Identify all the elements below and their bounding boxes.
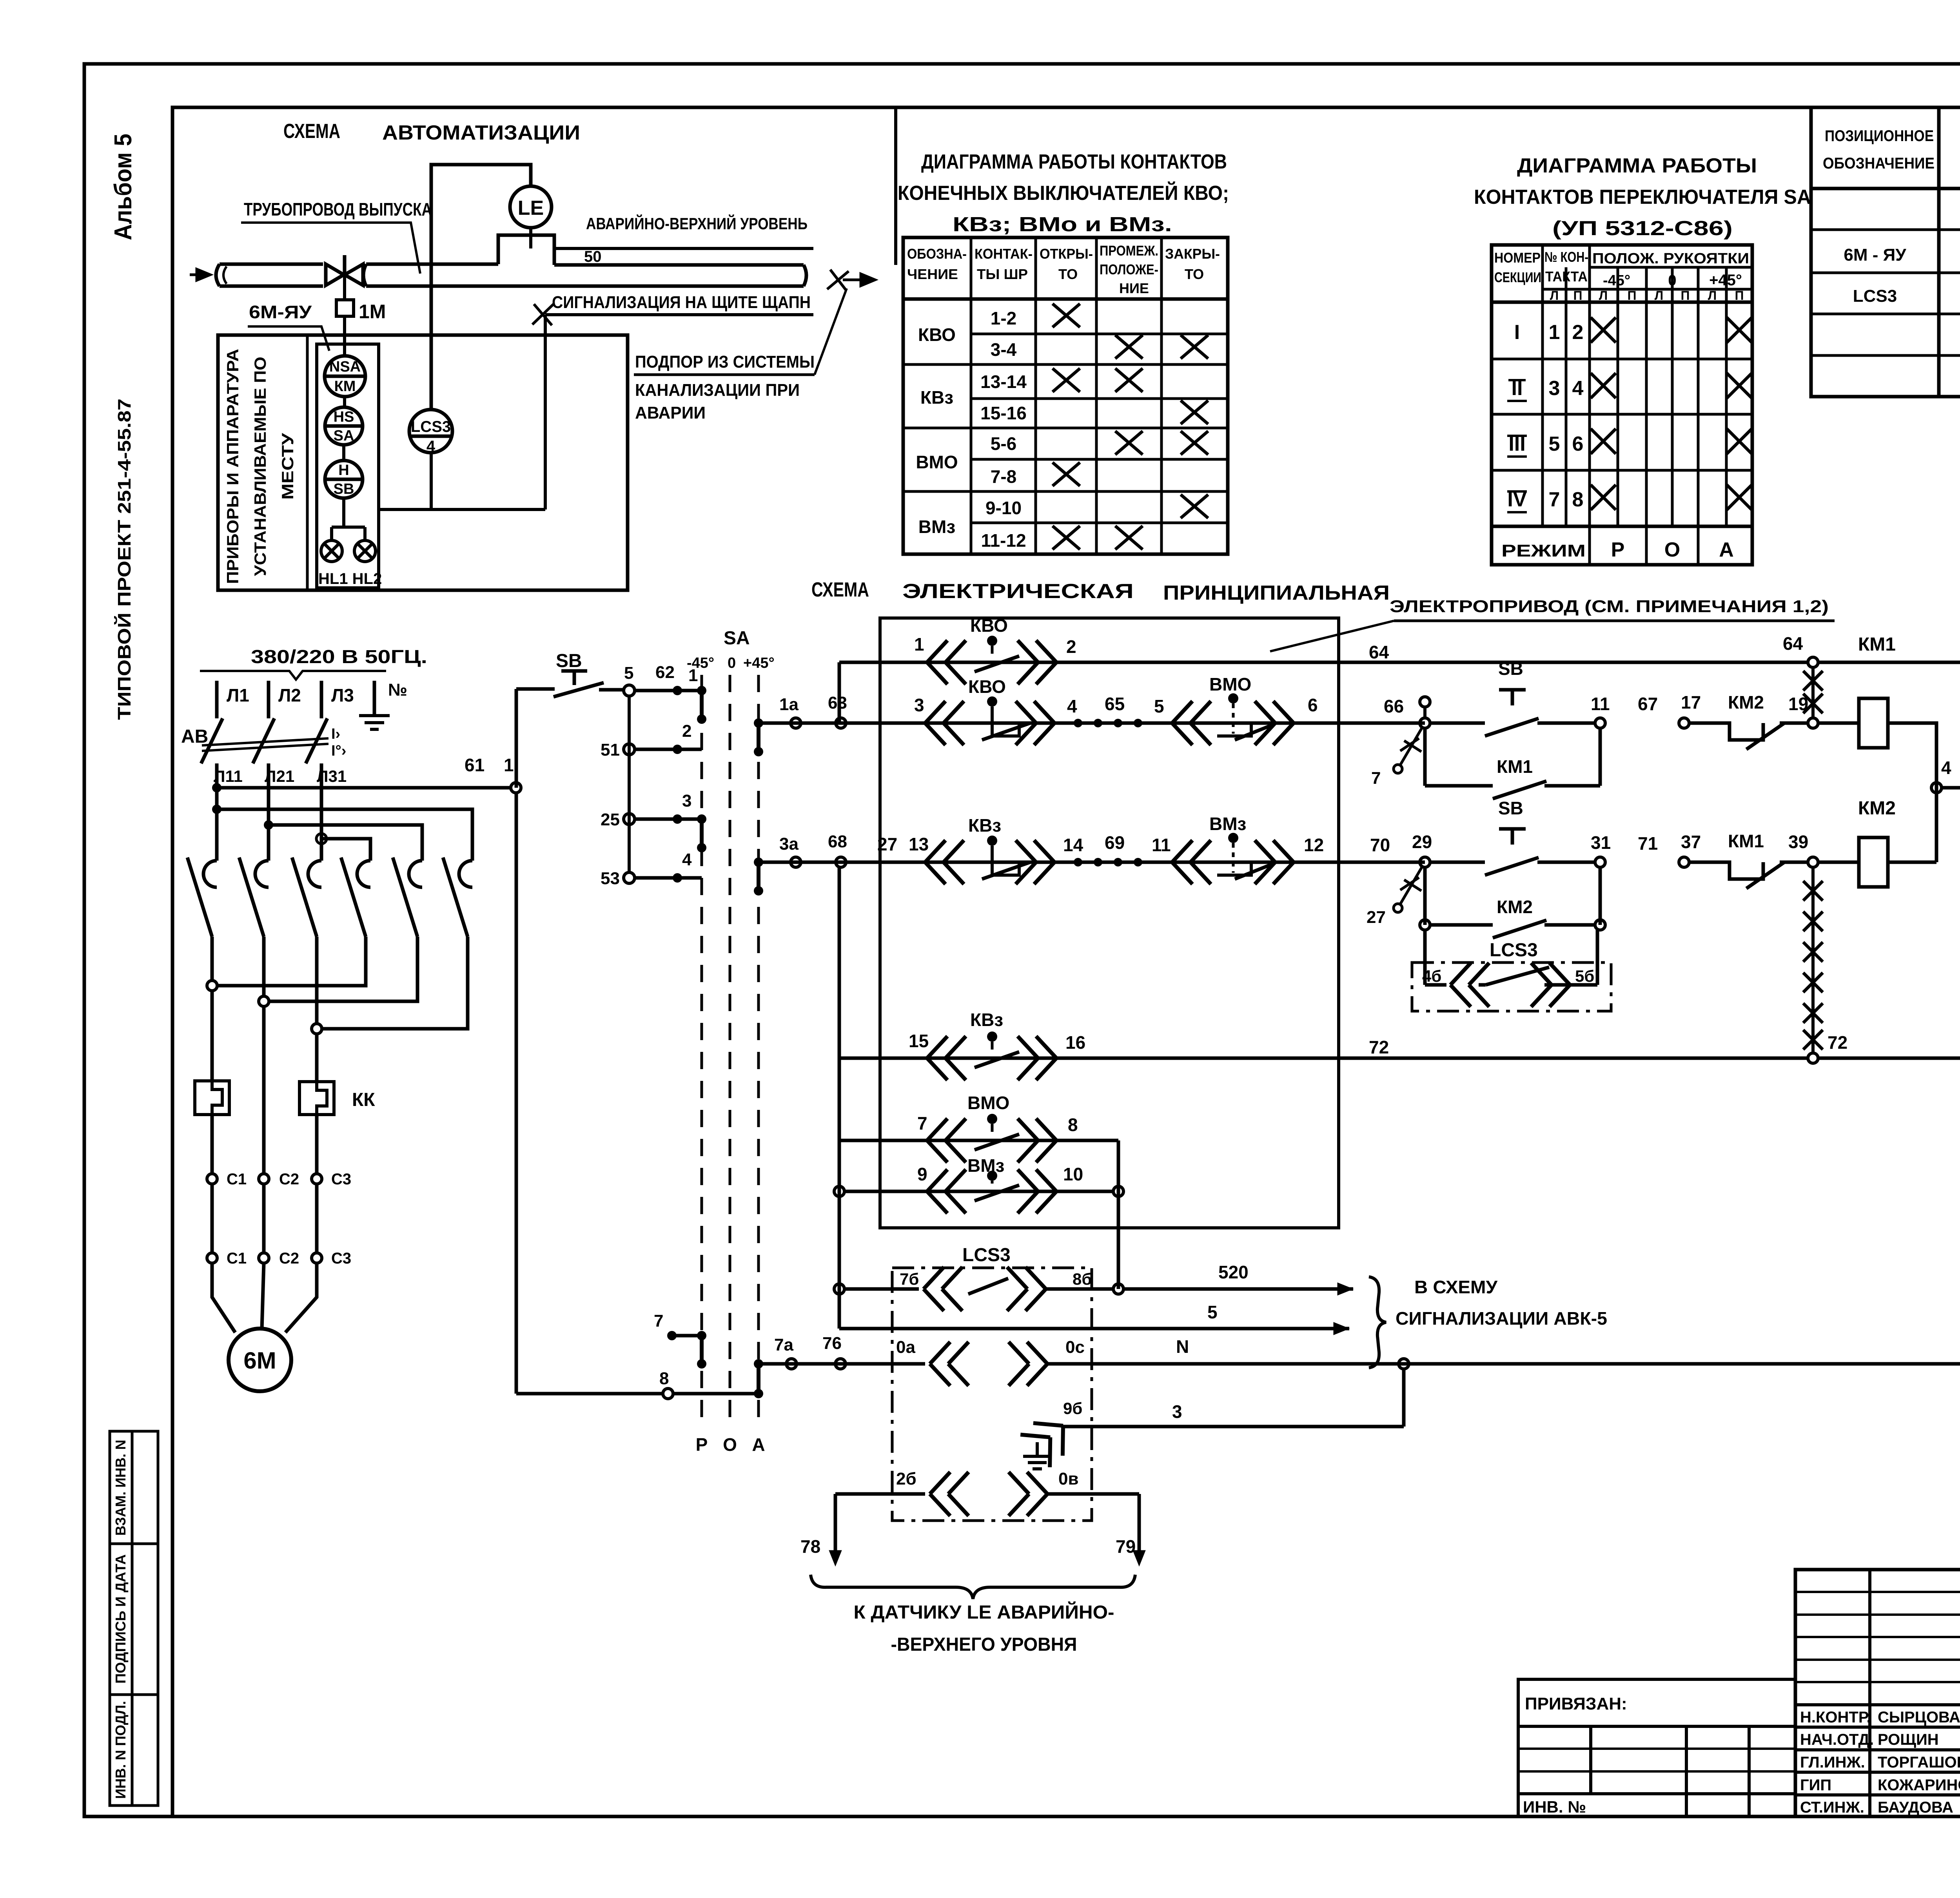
terminals C1 C2 C3 row 2 [207, 1253, 217, 1263]
wire terminal 8 to SA A [673, 1392, 759, 1396]
svg-text:СХЕМА: СХЕМА [811, 578, 869, 601]
wire 1M box to NSA [343, 316, 346, 356]
junction dots on phases [212, 783, 221, 792]
wire 3 [1063, 1425, 1404, 1428]
svg-text:70: 70 [1370, 835, 1390, 855]
svg-text:37: 37 [1681, 832, 1701, 852]
inner frame top line [172, 106, 1960, 109]
node 7a [786, 1359, 797, 1369]
connector pins 4b-5b [1450, 963, 1489, 1007]
cross link 2 [269, 937, 417, 1001]
svg-text:ПРИНЦИПИАЛЬНАЯ: ПРИНЦИПИАЛЬНАЯ [1163, 582, 1390, 604]
SA contact bar P rows1-2 [702, 691, 759, 891]
wire 2b-0v row [835, 1492, 925, 1496]
wire 64 to HL1 [1818, 661, 1960, 664]
wire N to right bus [1047, 1362, 1960, 1366]
svg-text:-ВЕРХНЕГО УРОВНЯ: -ВЕРХНЕГО УРОВНЯ [891, 1634, 1077, 1655]
node 4 [1931, 783, 1942, 793]
svg-text:П: П [1735, 288, 1744, 303]
svg-text:64: 64 [1783, 633, 1803, 654]
svg-text:62: 62 [655, 663, 675, 682]
svg-text:ВМО: ВМО [1209, 674, 1251, 694]
node 17 [1679, 718, 1689, 728]
svg-text:5: 5 [1207, 1302, 1218, 1322]
svg-text:БАУДОВА: БАУДОВА [1878, 1799, 1953, 1816]
wire 5 [839, 1327, 1349, 1331]
svg-text:-45°: -45° [1603, 272, 1630, 289]
node 66 with stub [1420, 718, 1430, 728]
SA dashed column P [701, 675, 703, 1427]
svg-text:1а: 1а [779, 695, 799, 714]
svg-text:КМ2: КМ2 [1858, 798, 1896, 819]
X marks table2 [1591, 317, 1752, 510]
LCS3 contact blade [968, 1278, 1008, 1294]
leader podpor to pipe [815, 288, 847, 375]
svg-text:КВО: КВО [968, 676, 1006, 697]
pipe section 1 [216, 264, 323, 286]
svg-text:С3: С3 [331, 1250, 351, 1267]
connector pins row2b right [1255, 701, 1294, 745]
svg-text:КМ: КМ [334, 378, 356, 395]
svg-text:ВМО: ВМО [916, 452, 958, 472]
svg-text:HL1 HL2: HL1 HL2 [318, 570, 382, 587]
phase wires down [217, 763, 321, 861]
wire row3 from SA [759, 861, 1425, 864]
connector pins row1 left [927, 640, 966, 684]
svg-text:А: А [752, 1434, 765, 1455]
reversing jumper 1 [217, 809, 472, 861]
svg-text:№ КОН-: № КОН- [1544, 249, 1588, 265]
wire 7 to SA [672, 1334, 702, 1338]
SA dashed column O [729, 675, 731, 1427]
connector pins row2 right [1016, 701, 1054, 745]
svg-text:2: 2 [1066, 636, 1076, 657]
terminal 8 [663, 1389, 673, 1399]
svg-text:ГИП: ГИП [1800, 1777, 1831, 1794]
svg-text:19: 19 [1788, 694, 1808, 714]
valve stem to drive box [343, 276, 346, 300]
svg-text:СЫРЦОВА: СЫРЦОВА [1878, 1709, 1960, 1726]
svg-text:I°›: I°› [331, 743, 346, 759]
svg-text:КОНТАК-: КОНТАК- [975, 246, 1033, 262]
wires to thermal elements [212, 991, 317, 1174]
SA bottom terminal 7 [667, 1331, 677, 1340]
svg-text:АВАРИИ: АВАРИИ [635, 403, 706, 422]
node C-link 2 [259, 996, 269, 1006]
svg-text:72: 72 [1828, 1032, 1847, 1053]
svg-text:О: О [723, 1434, 737, 1455]
phase stub L3 [320, 681, 323, 718]
cable wires [212, 1184, 317, 1253]
svg-text:КВз; ВМо и ВМз.: КВз; ВМо и ВМз. [953, 213, 1172, 236]
svg-text:68: 68 [828, 832, 847, 851]
neutral stub [373, 681, 376, 715]
svg-text:П: П [1681, 288, 1690, 303]
node 3a [791, 857, 801, 867]
svg-text:3-4: 3-4 [991, 339, 1017, 360]
crossed jumper 64-19 [1803, 667, 1823, 718]
connector pins row5 left [927, 1118, 966, 1162]
svg-text:КМ2: КМ2 [1497, 897, 1533, 917]
svg-text:31: 31 [1591, 832, 1611, 853]
svg-text:ПОЗИЦИОННОЕ: ПОЗИЦИОННОЕ [1825, 127, 1934, 145]
svg-text:5б: 5б [1575, 967, 1594, 985]
cross link 1 [217, 937, 366, 986]
svg-text:10: 10 [1063, 1164, 1083, 1184]
node 61 [511, 783, 521, 793]
terminal 5 [624, 685, 635, 696]
svg-text:2: 2 [682, 721, 691, 741]
svg-text:11: 11 [1152, 835, 1171, 855]
svg-text:5: 5 [1154, 696, 1164, 716]
svg-text:КК: КК [352, 1089, 375, 1110]
leader truboprovod [241, 223, 420, 274]
svg-text:65: 65 [1105, 694, 1125, 714]
svg-text:КОЖАРИНОВА: КОЖАРИНОВА [1878, 1777, 1960, 1794]
svg-text:Р: Р [696, 1434, 708, 1455]
svg-text:78: 78 [800, 1536, 820, 1557]
svg-text:9б: 9б [1063, 1399, 1082, 1418]
connector pins row3 left [925, 840, 964, 884]
wire LCS3 down [430, 453, 433, 509]
svg-text:1: 1 [1549, 321, 1560, 344]
svg-text:ПОДПИСЬ И ДАТА: ПОДПИСЬ И ДАТА [113, 1554, 129, 1684]
svg-text:3: 3 [682, 791, 691, 810]
wire tap dots [673, 686, 682, 695]
svg-text:ДИАГРАММА РАБОТЫ: ДИАГРАММА РАБОТЫ [1517, 154, 1757, 177]
terminal 53 [624, 872, 635, 883]
svg-text:69: 69 [1105, 832, 1125, 853]
terminal 51 [624, 744, 635, 755]
svg-text:51: 51 [601, 740, 620, 760]
connector pins row2 left [925, 701, 964, 745]
svg-text:16: 16 [1065, 1032, 1085, 1053]
svg-text:5: 5 [624, 663, 633, 683]
svg-text:3: 3 [1549, 377, 1560, 400]
svg-text:6М-ЯУ: 6М-ЯУ [249, 302, 312, 322]
svg-text:ОБОЗНАЧЕНИЕ: ОБОЗНАЧЕНИЕ [1823, 155, 1935, 172]
svg-text:50: 50 [584, 248, 602, 265]
leader 6M-YaU [248, 326, 329, 351]
splice dots row3 [1074, 858, 1082, 867]
svg-text:HS: HS [334, 409, 354, 425]
svg-text:ПОДПОР ИЗ СИСТЕМЫ: ПОДПОР ИЗ СИСТЕМЫ [635, 352, 815, 372]
connector pins 7b [924, 1267, 962, 1311]
svg-text:4: 4 [1572, 377, 1584, 400]
svg-text:N: N [1176, 1336, 1189, 1357]
svg-text:№: № [388, 680, 407, 700]
svg-text:LCS3: LCS3 [411, 418, 451, 435]
drive box 1M [336, 300, 354, 316]
connector pins 0c [1009, 1342, 1047, 1386]
svg-text:8: 8 [1068, 1115, 1078, 1135]
svg-text:61: 61 [465, 755, 485, 775]
svg-text:7: 7 [1549, 488, 1560, 511]
instrument H/SB [325, 460, 363, 498]
thermal element KK phase1 [195, 1081, 229, 1115]
svg-text:4б: 4б [1422, 967, 1441, 985]
svg-text:Альбом 5: Альбом 5 [110, 134, 137, 240]
svg-text:6М - ЯУ: 6М - ЯУ [1844, 245, 1906, 265]
svg-text:0а: 0а [896, 1338, 915, 1357]
svg-text:ИНВ. N ПОДЛ.: ИНВ. N ПОДЛ. [113, 1701, 129, 1799]
svg-text:НИЕ: НИЕ [1119, 280, 1149, 296]
svg-text:39: 39 [1788, 832, 1808, 852]
svg-text:3а: 3а [779, 834, 799, 854]
phase stub L1 [215, 681, 219, 718]
wire row 520 [834, 1284, 844, 1294]
contactor KM1 poles [187, 857, 472, 937]
svg-text:13-14: 13-14 [980, 372, 1027, 392]
electric drive boundary box [880, 618, 1339, 1228]
svg-text:9: 9 [917, 1164, 927, 1184]
svg-text:ТО: ТО [1058, 266, 1078, 282]
svg-text:NSA: NSA [329, 359, 361, 375]
svg-text:ЭЛЕКТРОПРИВОД (СМ. ПРИМЕЧАНИЯ: ЭЛЕКТРОПРИВОД (СМ. ПРИМЕЧАНИЯ 1,2) [1390, 597, 1829, 616]
svg-text:380/220 В 50ГЦ.: 380/220 В 50ГЦ. [251, 647, 427, 667]
svg-text:КМ1: КМ1 [1858, 634, 1896, 655]
LE stem down to pipe pocket [529, 228, 532, 248]
svg-text:4: 4 [426, 438, 436, 455]
wire HS to H [342, 445, 345, 460]
node N-3 junction [1399, 1359, 1409, 1369]
pole bottom wires [212, 937, 317, 1024]
svg-text:4: 4 [1941, 758, 1951, 778]
svg-text:27: 27 [877, 834, 897, 854]
lamp HL2 symbol [354, 540, 376, 562]
svg-text:МЕСТУ: МЕСТУ [278, 433, 297, 500]
svg-text:6: 6 [1572, 433, 1584, 455]
LE signal line up and to LCS3 drop [431, 165, 531, 410]
svg-text:520: 520 [1218, 1262, 1249, 1282]
svg-text:ИНВ. №: ИНВ. № [1523, 1798, 1586, 1816]
svg-text:Л: Л [1655, 288, 1663, 303]
svg-text:LCS3: LCS3 [1490, 940, 1538, 961]
svg-text:СИГНАЛИЗАЦИЯ НА ЩИТЕ ЩАПН: СИГНАЛИЗАЦИЯ НА ЩИТЕ ЩАПН [552, 293, 811, 312]
SA dashed column A [757, 675, 760, 1427]
svg-text:АВ: АВ [181, 726, 208, 747]
svg-text:КМ2: КМ2 [1728, 692, 1764, 712]
wires terminals to SA [635, 691, 702, 878]
connector pins row4 left [927, 1036, 966, 1080]
node 72 [1808, 1053, 1818, 1063]
svg-text:(УП 5312-С86): (УП 5312-С86) [1552, 217, 1733, 240]
sensor lead 78 [834, 1494, 837, 1552]
local instruments box [218, 335, 628, 590]
svg-text:Л: Л [1708, 288, 1717, 303]
right bypass vertical [1117, 1140, 1120, 1289]
svg-text:К ДАТЧИКУ LE АВАРИЙНО-: К ДАТЧИКУ LE АВАРИЙНО- [854, 1601, 1114, 1623]
node 68 [836, 857, 846, 867]
signal drop wire [544, 315, 547, 509]
svg-text:7а: 7а [774, 1335, 793, 1354]
connector pins row2b left [1172, 701, 1211, 745]
svg-text:7: 7 [654, 1311, 663, 1331]
crossed stub 7 [1400, 728, 1422, 765]
reversing jumper 2 [269, 825, 422, 861]
crossed jumper 39-72 [1803, 867, 1823, 1053]
node 19 [1808, 718, 1818, 728]
signature stamp grid [1795, 1570, 1960, 1816]
svg-text:ОТКРЫ-: ОТКРЫ- [1040, 246, 1093, 262]
sensor lead 79 [1138, 1494, 1141, 1552]
bracket under label [200, 671, 386, 680]
svg-text:3: 3 [1172, 1401, 1182, 1422]
svg-text:0с: 0с [1065, 1338, 1085, 1357]
circuit breaker AB blades [201, 718, 328, 763]
svg-text:ПОЛОЖ. РУКОЯТКИ: ПОЛОЖ. РУКОЯТКИ [1592, 250, 1749, 267]
svg-text:АВАРИЙНО-ВЕРХНИЙ УРОВЕНЬ: АВАРИЙНО-ВЕРХНИЙ УРОВЕНЬ [586, 214, 808, 233]
pipe section 2 [363, 235, 806, 286]
node 11 [1595, 718, 1605, 728]
X marks table1 [1053, 304, 1208, 549]
svg-text:КВО: КВО [970, 615, 1008, 636]
node 39 [1808, 857, 1818, 867]
svg-text:ТИПОВОЙ ПРОЕКТ 251-4-55.87: ТИПОВОЙ ПРОЕКТ 251-4-55.87 [114, 399, 134, 720]
svg-text:-45°: -45° [687, 655, 714, 671]
control row wire [516, 687, 555, 691]
connector pins row3b right [1255, 840, 1294, 884]
wire 8 from left drop [516, 1392, 663, 1396]
svg-text:Н.КОНТР.: Н.КОНТР. [1800, 1709, 1871, 1726]
node C-link 3 [312, 1024, 322, 1034]
svg-text:I›: I› [331, 726, 340, 742]
instrument LCS3/4 [409, 410, 452, 453]
svg-text:КВз: КВз [920, 387, 953, 408]
svg-text:53: 53 [601, 869, 620, 888]
svg-text:ПРОМЕЖ.: ПРОМЕЖ. [1100, 243, 1158, 259]
svg-text:П: П [1628, 288, 1637, 303]
wire 520 [1123, 1287, 1353, 1291]
svg-text:7: 7 [917, 1113, 927, 1133]
wire H/SB to lamps [332, 498, 365, 540]
wire 72 to HL2 [1818, 1057, 1960, 1060]
motor leads [212, 1263, 317, 1332]
svg-text:8: 8 [659, 1369, 669, 1388]
brace to AVK-5 [1369, 1277, 1386, 1368]
svg-text:РЕЖИМ: РЕЖИМ [1501, 541, 1586, 560]
terminals C1 C2 C3 row 1 [207, 1174, 217, 1184]
connector pins row6 left [927, 1169, 966, 1213]
svg-text:SB: SB [334, 481, 354, 497]
svg-text:7б: 7б [900, 1270, 919, 1288]
svg-text:11: 11 [1591, 694, 1610, 714]
svg-text:+45°: +45° [1709, 272, 1742, 289]
svg-text:ЭЛЕКТРИЧЕСКАЯ: ЭЛЕКТРИЧЕСКАЯ [902, 580, 1134, 603]
svg-text:LCS3: LCS3 [1853, 286, 1897, 306]
connector pins row3 right [1016, 840, 1054, 884]
svg-text:КМ1: КМ1 [1728, 831, 1764, 851]
roles and names [1800, 1709, 1960, 1816]
svg-text:НОМЕР: НОМЕР [1494, 250, 1541, 266]
connector pins 0a [930, 1342, 969, 1386]
brace k datchiku [811, 1575, 1135, 1599]
instrument HS/SA [325, 407, 363, 445]
svg-text:66: 66 [1384, 696, 1404, 716]
svg-text:64: 64 [1369, 642, 1389, 662]
svg-text:1М: 1М [359, 301, 386, 323]
svg-text:КВз: КВз [968, 815, 1001, 836]
svg-text:Р: Р [1611, 538, 1625, 561]
svg-text:5-6: 5-6 [991, 433, 1016, 454]
pipe outlet cross and arrow [827, 270, 875, 290]
svg-text:РОЩИН: РОЩИН [1878, 1731, 1939, 1748]
node 31 [1595, 857, 1605, 867]
connector pin 9b [1020, 1409, 1078, 1467]
svg-text:СХЕМА: СХЕМА [283, 120, 340, 143]
control feed wire up from node 61 [515, 689, 518, 788]
svg-text:СИГНАЛИЗАЦИИ АВК-5: СИГНАЛИЗАЦИИ АВК-5 [1396, 1308, 1607, 1329]
svg-text:13: 13 [909, 834, 929, 854]
svg-text:1: 1 [504, 755, 514, 775]
svg-text:ТАКТА: ТАКТА [1545, 268, 1588, 285]
svg-text:15-16: 15-16 [980, 403, 1027, 423]
underline / level line [554, 247, 813, 250]
connector pins 8b [1007, 1267, 1046, 1311]
node 63 [836, 718, 846, 728]
level sensor LE circle [510, 186, 552, 228]
cross link 3 [322, 937, 468, 1029]
svg-text:ЧЕНИЕ: ЧЕНИЕ [907, 266, 958, 282]
inner frame left line [171, 107, 174, 1816]
svg-text:НАЧ.ОТД.: НАЧ.ОТД. [1800, 1731, 1874, 1748]
svg-text:29: 29 [1412, 832, 1432, 852]
svg-text:С2: С2 [279, 1171, 299, 1188]
svg-text:4: 4 [682, 850, 692, 869]
svg-text:76: 76 [822, 1334, 842, 1353]
svg-text:ВМз: ВМз [1209, 814, 1246, 834]
svg-text:SA: SA [334, 428, 354, 444]
svg-text:ВМз: ВМз [918, 517, 955, 537]
svg-text:ТО: ТО [1185, 266, 1204, 282]
node 520 junction [1113, 1284, 1123, 1294]
connector pins row4 right [1018, 1036, 1056, 1080]
table title [898, 150, 1229, 236]
overbars for section numerals [1507, 380, 1527, 512]
cross mark on signal line [532, 304, 554, 325]
svg-text:ПОЛОЖЕ-: ПОЛОЖЕ- [1100, 261, 1158, 277]
divider in instruments box [306, 335, 309, 590]
svg-text:ВЗАМ. ИНВ. N: ВЗАМ. ИНВ. N [113, 1440, 129, 1536]
connector pins row6 right [1018, 1169, 1056, 1213]
svg-text:КМ1: КМ1 [1497, 756, 1533, 777]
svg-text:SB: SB [1498, 798, 1523, 818]
svg-text:17: 17 [1681, 692, 1701, 712]
svg-text:ПРИВЯЗАН:: ПРИВЯЗАН: [1525, 1694, 1627, 1713]
svg-text:7: 7 [1371, 769, 1381, 788]
svg-text:63: 63 [828, 693, 847, 712]
svg-text:0: 0 [728, 655, 736, 671]
phase stub L2 [267, 681, 270, 718]
node 37 [1679, 857, 1689, 867]
svg-text:СТ.ИНЖ.: СТ.ИНЖ. [1800, 1799, 1864, 1816]
svg-text:1-2: 1-2 [991, 308, 1016, 328]
node 29 [1420, 857, 1430, 867]
node 64 [1808, 657, 1818, 667]
svg-text:71: 71 [1638, 833, 1658, 854]
coil KM1 wire right [1888, 723, 1936, 862]
left margin stamp boxes [110, 1431, 158, 1806]
svg-text:9-10: 9-10 [985, 498, 1022, 518]
svg-text:6: 6 [1308, 695, 1318, 715]
svg-text:7-8: 7-8 [991, 466, 1016, 487]
svg-text:ДИАГРАММА РАБОТЫ КОНТАКТОВ: ДИАГРАММА РАБОТЫ КОНТАКТОВ [921, 150, 1227, 173]
crossed stub 27 [1400, 867, 1422, 904]
svg-text:С1: С1 [227, 1250, 247, 1267]
svg-text:ЗАКРЫ-: ЗАКРЫ- [1165, 246, 1220, 262]
svg-text:Л: Л [1550, 288, 1559, 303]
automation area right boundary [894, 107, 897, 265]
